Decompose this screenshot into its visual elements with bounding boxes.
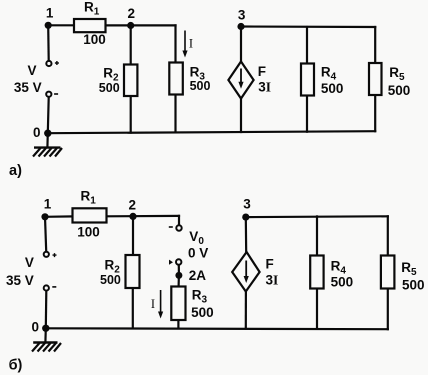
svg-text:500: 500	[191, 305, 214, 320]
wire: R3 lower lead (circuit b)	[177, 320, 179, 328]
svg-text:V0: V0	[189, 229, 204, 247]
svg-text:R1: R1	[84, 0, 100, 17]
wire: R2 branch lower lead (circuit a)	[130, 96, 132, 133]
wire: R1 to node2 to corner above V0 terminal (circuit b)	[107, 215, 180, 218]
svg-text:35 V: 35 V	[6, 273, 34, 288]
voltage source V 35V terminals (circuit b)	[6, 252, 56, 291]
node 2A junction (circuit b)	[175, 268, 206, 283]
node 0 (circuit a)	[33, 125, 52, 140]
wire: corner down to upper open terminal (circuit b)	[178, 216, 180, 225]
current arrow I (circuit a)	[182, 31, 193, 58]
wire: lower open terminal to 2A node (circuit b)	[178, 265, 180, 273]
svg-text:0 V: 0 V	[188, 246, 208, 261]
wire: top left node1 to R1 (circuit a)	[48, 24, 74, 26]
svg-text:500: 500	[99, 81, 120, 95]
voltage source V 35V terminals (circuit a)	[14, 61, 59, 97]
ground (circuit a)	[33, 133, 62, 156]
svg-text:a): a)	[9, 163, 22, 179]
svg-text:35 V: 35 V	[14, 80, 42, 95]
resistor R4 500 (circuit b)	[310, 256, 353, 290]
svg-text:R1: R1	[81, 188, 97, 206]
svg-text:I: I	[151, 297, 155, 311]
open terminal lower with + mark (circuit b)	[169, 259, 181, 265]
svg-text:3: 3	[243, 197, 251, 212]
node 0 (circuit b)	[31, 320, 49, 335]
wire: R2 branch upper lead (circuit a)	[130, 26, 132, 65]
wire: R5 branch lower lead (circuit a)	[374, 95, 376, 131]
wire: R5 branch upper lead (circuit a)	[374, 27, 376, 63]
wire: F source lower lead (circuit a)	[240, 98, 242, 132]
wire: - terminal down to node0 (circuit b)	[45, 291, 48, 328]
resistor R3 500 (circuit a)	[169, 63, 210, 95]
resistor R1 100 (circuit b)	[73, 188, 107, 239]
wire: node3 to top-right corner (circuit b)	[246, 215, 388, 218]
current arrow I (circuit b)	[151, 290, 163, 319]
svg-text:R3: R3	[192, 288, 208, 306]
node 1 (circuit a)	[45, 6, 54, 29]
wire: F source upper lead (circuit b)	[245, 217, 248, 253]
svg-text:V: V	[27, 63, 36, 78]
wire: R4 branch lower lead (circuit b)	[316, 289, 318, 329]
wire: F source upper lead (circuit a)	[240, 27, 242, 63]
svg-text:500: 500	[388, 83, 411, 98]
svg-text:2: 2	[129, 198, 137, 213]
wire: node1 to R1 (circuit b)	[45, 215, 73, 218]
svg-text:F: F	[266, 257, 274, 272]
wire: R4 branch upper lead (circuit a)	[306, 27, 308, 64]
svg-text:100: 100	[77, 225, 100, 240]
wire: R5 branch lower lead (circuit b)	[387, 289, 389, 330]
resistor R5 500 (circuit a)	[369, 63, 410, 98]
dependent current source F = 3I (circuit b)	[232, 252, 278, 292]
node 2 (circuit b)	[129, 198, 137, 220]
wire: R4 branch lower lead (circuit a)	[306, 96, 308, 132]
node 3 (circuit b)	[242, 197, 251, 221]
svg-text:3I: 3I	[258, 80, 271, 95]
svg-text:б): б)	[9, 357, 23, 373]
wire: bottom rail node0 to R5 (circuit a)	[48, 131, 375, 133]
wire: R2 branch upper lead (circuit b)	[132, 216, 134, 255]
dependent current source F = 3I (circuit a)	[228, 62, 271, 99]
wire: node3 to top-right corner (circuit a)	[241, 25, 375, 28]
svg-text:100: 100	[83, 32, 106, 47]
svg-text:1: 1	[46, 6, 54, 21]
svg-text:R5: R5	[389, 65, 405, 83]
wire: R5 branch upper lead (circuit b)	[387, 216, 389, 255]
node 3 (circuit a)	[237, 8, 245, 31]
svg-text:500: 500	[100, 273, 121, 287]
svg-text:500: 500	[402, 278, 425, 293]
resistor R2 500 (circuit a)	[99, 65, 138, 97]
wire: node1 down to + terminal (circuit b)	[45, 217, 46, 251]
svg-text:3I: 3I	[266, 273, 279, 288]
resistor R3 500 (circuit b)	[171, 287, 213, 321]
wire: R4 branch upper lead (circuit b)	[316, 216, 318, 255]
open terminal V0 upper (circuit b)	[169, 225, 208, 260]
resistor R4 500 (circuit a)	[301, 64, 343, 97]
node 1 (circuit b)	[41, 197, 51, 221]
svg-text:I: I	[189, 36, 193, 50]
wire: bottom rail node0 to R5 (circuit b)	[46, 327, 388, 330]
wire: R3 branch top lead (circuit a)	[174, 25, 176, 62]
svg-text:500: 500	[321, 81, 344, 96]
svg-text:R4: R4	[321, 64, 337, 82]
svg-text:0: 0	[33, 125, 41, 140]
svg-text:2A: 2A	[189, 268, 207, 283]
ground (circuit b)	[32, 328, 61, 351]
wire: R3 branch lower lead (circuit a)	[174, 95, 176, 133]
svg-text:1: 1	[44, 197, 52, 212]
svg-text:0: 0	[31, 320, 39, 335]
wire: 2A node into R3 (circuit b)	[178, 275, 180, 286]
svg-text:2: 2	[127, 6, 135, 21]
wire: R2 branch lower lead (circuit b)	[132, 288, 134, 328]
svg-text:V: V	[25, 255, 34, 270]
svg-text:500: 500	[331, 275, 354, 290]
svg-text:F: F	[258, 64, 266, 79]
resistor R1 100 (circuit a)	[74, 0, 106, 47]
wire: F source lower lead (circuit b)	[245, 291, 247, 329]
resistor R2 500 (circuit b)	[100, 255, 140, 288]
svg-text:R5: R5	[401, 260, 417, 278]
wire: node1 down to + terminal (circuit a)	[47, 25, 50, 60]
wire: - terminal down to node0 (circuit a)	[47, 98, 50, 134]
svg-text:500: 500	[190, 79, 211, 93]
svg-text:3: 3	[238, 8, 246, 23]
resistor R5 500 (circuit b)	[381, 256, 425, 293]
node 2 (circuit a)	[127, 6, 135, 29]
wire: R1 to node2 to R3 branch corner (circuit a)	[106, 24, 176, 26]
